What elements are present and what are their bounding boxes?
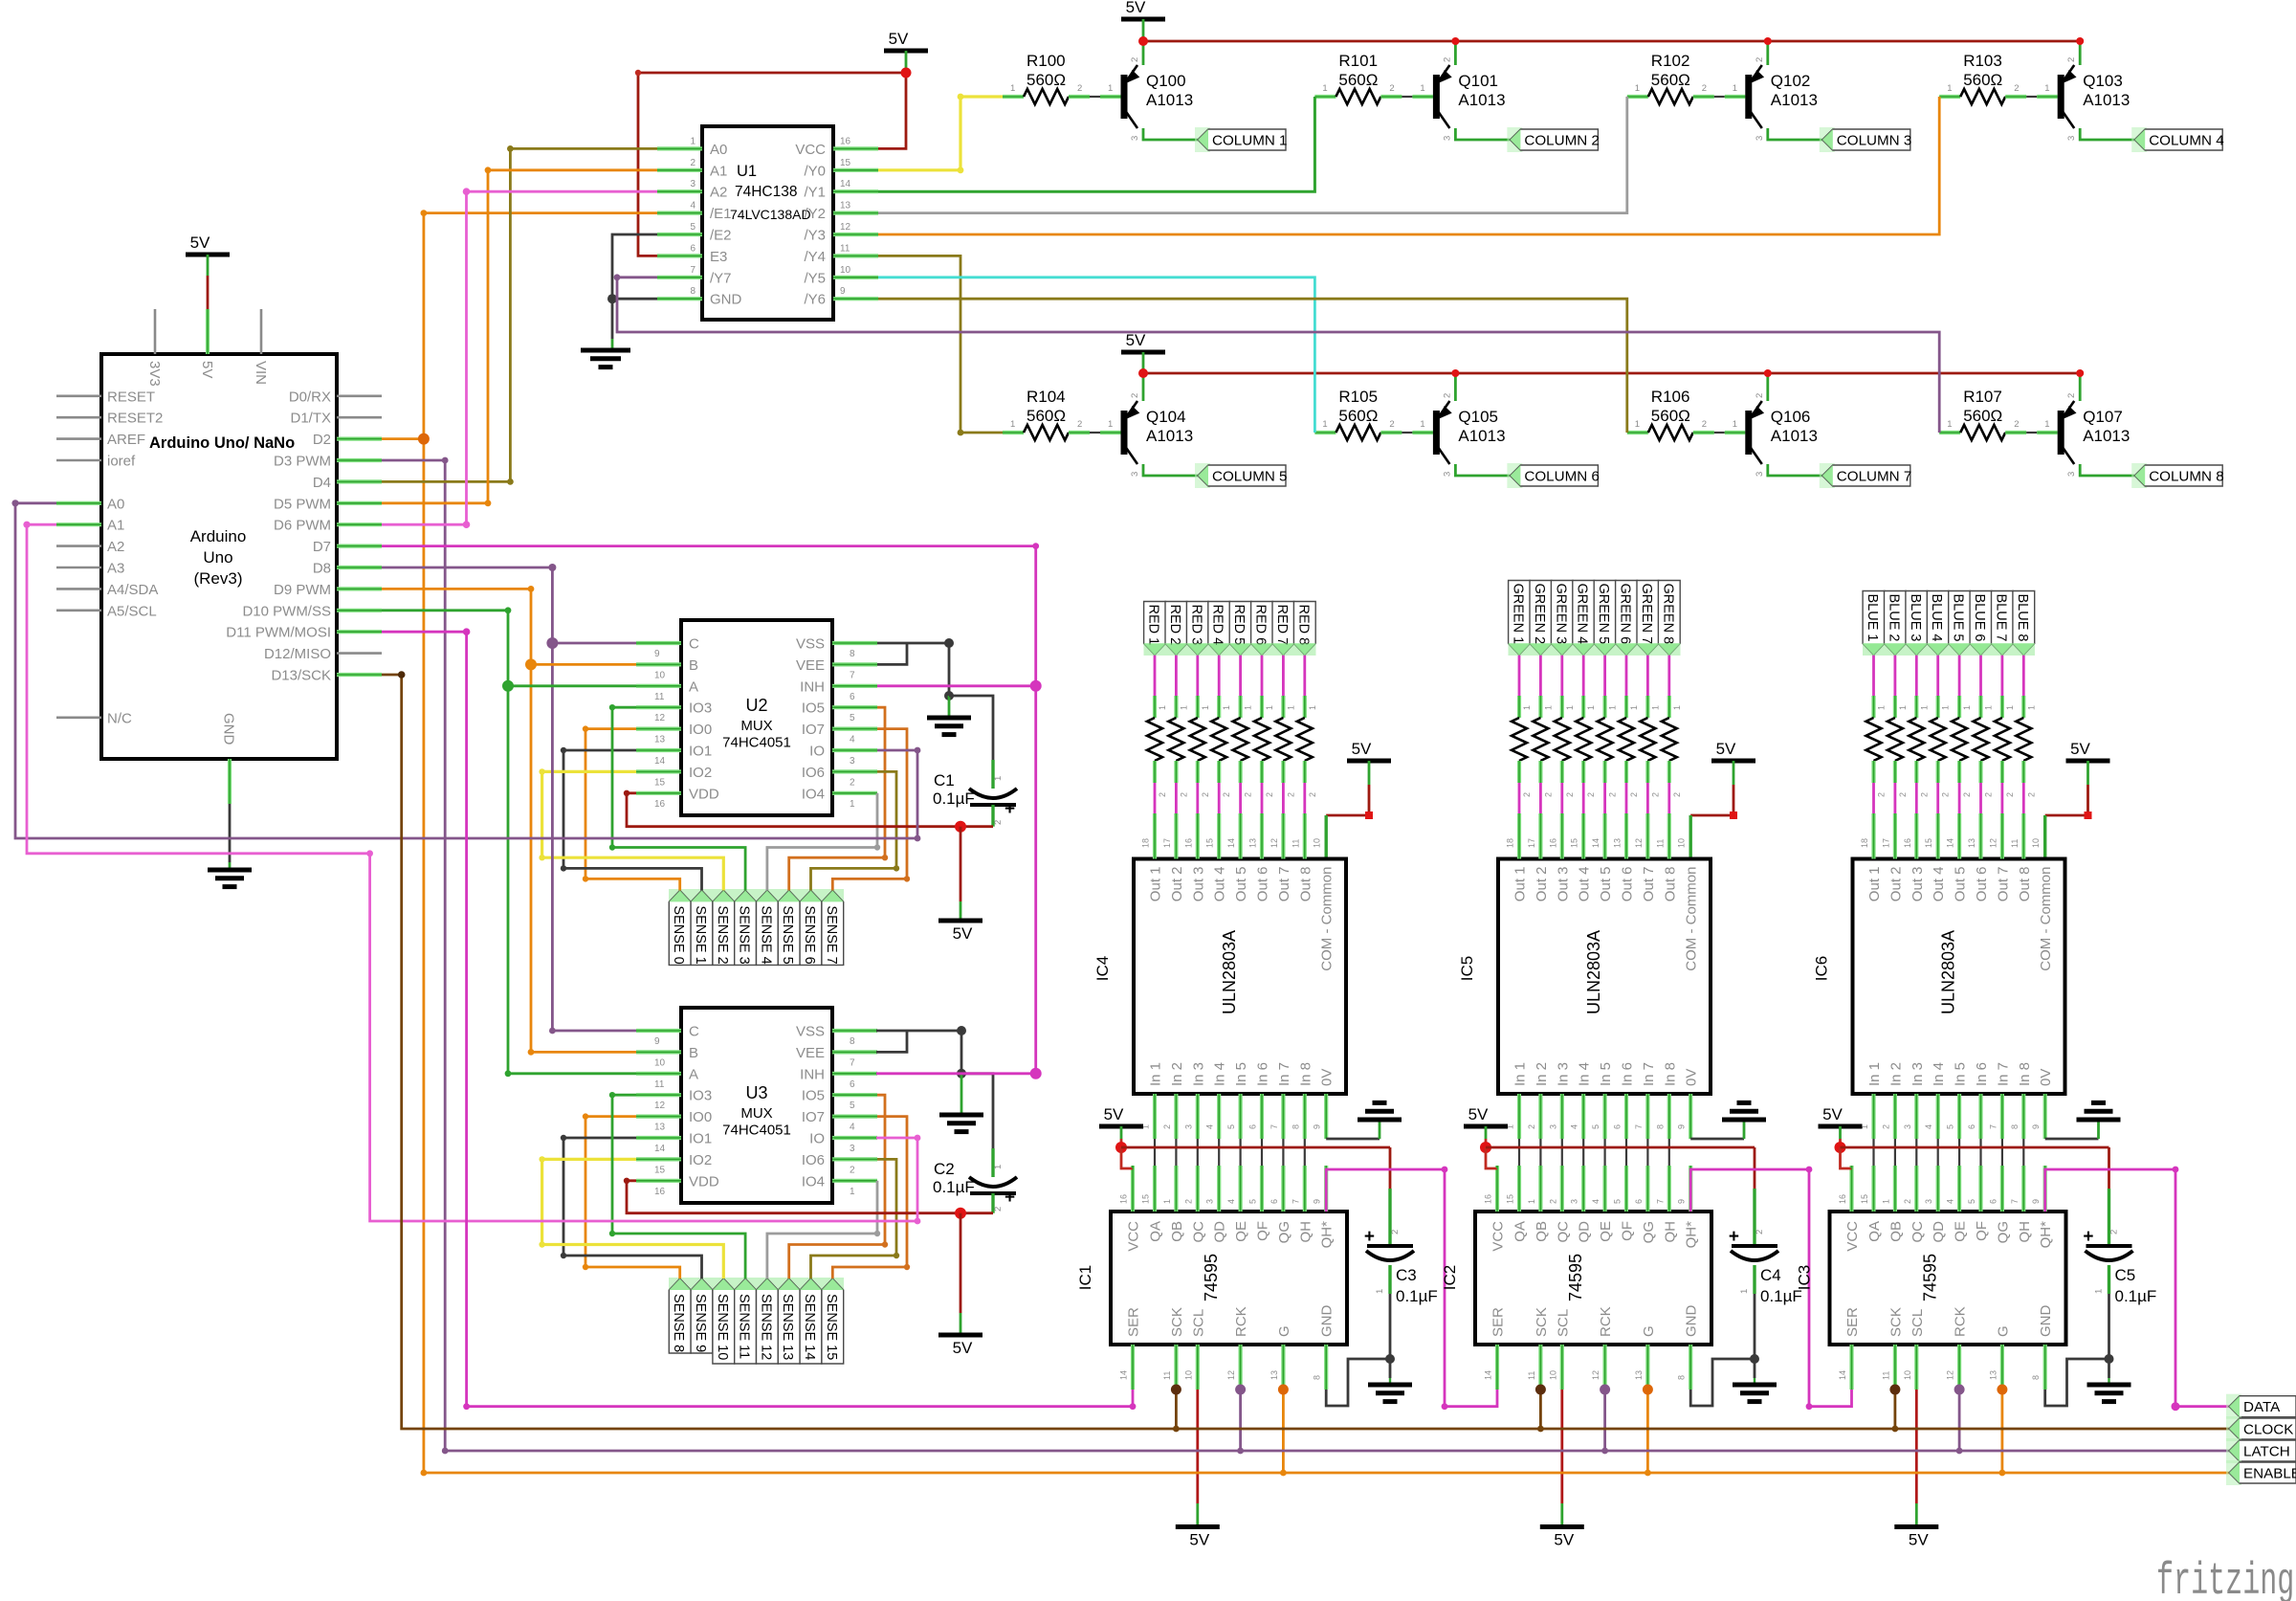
svg-text:A0: A0 [710, 142, 727, 158]
svg-text:In 6: In 6 [1974, 1062, 1990, 1086]
svg-text:VCC: VCC [1126, 1221, 1142, 1252]
svg-text:GND: GND [1684, 1305, 1700, 1338]
svg-text:7: 7 [690, 265, 695, 276]
net flag SENSE 9 [691, 1279, 713, 1353]
IC5 pin 5 In 5 [1602, 1094, 1606, 1139]
svg-text:/E2: /E2 [710, 228, 732, 244]
svg-text:CLOCK: CLOCK [2243, 1422, 2293, 1438]
IC6 pin 17 Out 2 [1893, 813, 1897, 859]
svg-text:RCK: RCK [1598, 1306, 1614, 1337]
svg-text:1: 1 [1672, 705, 1682, 710]
IC5 pin 11 Out 8 [1667, 813, 1671, 859]
svg-text:11: 11 [1291, 839, 1300, 848]
capacitor C5 0.1uF [2108, 1189, 2110, 1246]
svg-text:7: 7 [1988, 1124, 1998, 1129]
svg-text:GND: GND [221, 713, 237, 745]
svg-text:A5/SCL: A5/SCL [107, 603, 157, 619]
IC2 pin 7 QH [1667, 1166, 1671, 1212]
svg-text:C2: C2 [934, 1160, 955, 1178]
svg-text:IO7: IO7 [802, 1109, 825, 1125]
svg-text:QC: QC [1190, 1221, 1206, 1243]
svg-text:Arduino Uno/ NaNo: Arduino Uno/ NaNo [149, 434, 295, 452]
transistor Q103 A1013 PNP [2058, 75, 2064, 119]
wire /Y5 cyan to R105 [878, 278, 1314, 433]
wire IC5 0V to ground [1690, 1138, 1744, 1141]
net flag COLUMN 4 [2131, 127, 2147, 152]
IC4 pin 11 Out 8 [1303, 813, 1307, 859]
highlight band BLUE flags [1863, 643, 2035, 656]
svg-text:6: 6 [1613, 1124, 1623, 1129]
svg-text:2: 2 [2014, 419, 2019, 430]
IC4 pin 8 In 8 [1303, 1094, 1307, 1139]
svg-text:Out 3: Out 3 [1910, 867, 1926, 902]
net flag COLUMN 3 [1820, 127, 1835, 152]
wire flag to resistor col 2 [1539, 656, 1542, 697]
IC4 pin 3 In 3 [1196, 1094, 1200, 1139]
IC1 pin 14 SER [1131, 1345, 1135, 1390]
svg-text:14: 14 [654, 1144, 666, 1154]
svg-text:COLUMN 7: COLUMN 7 [1837, 469, 1911, 485]
svg-text:In 8: In 8 [2017, 1062, 2033, 1086]
IC5 pin 18 Out 1 [1517, 813, 1521, 859]
IC5 pin 17 Out 2 [1538, 813, 1542, 859]
svg-text:+: + [1004, 799, 1015, 819]
wire IO6 dark-yellow to SENSE [811, 1159, 897, 1279]
wire U2 VSS/VEE to ground [877, 643, 949, 696]
svg-text:560Ω: 560Ω [1651, 407, 1690, 425]
IC1 pin 15 QA [1153, 1166, 1157, 1212]
wire /Y4 dark-yellow to R104 [878, 256, 1003, 433]
U1 pin 3 A2 [657, 189, 702, 193]
svg-text:D9 PWM: D9 PWM [274, 582, 331, 598]
svg-text:QF: QF [1255, 1221, 1271, 1241]
svg-text:BLUE 3: BLUE 3 [1908, 594, 1923, 642]
U2 pin 12 IO3 [636, 705, 681, 709]
svg-text:In 1: In 1 [1866, 1062, 1883, 1086]
wire /Y7 purple to R107 [617, 278, 1939, 433]
IC1 pin 3 QD [1217, 1166, 1221, 1212]
wire IC3 GND to ground [2045, 1359, 2109, 1406]
svg-text:10: 10 [1313, 838, 1322, 848]
svg-text:Out 7: Out 7 [1995, 867, 2011, 902]
svg-text:BLUE 2: BLUE 2 [1886, 594, 1901, 642]
svg-text:1: 1 [1108, 83, 1113, 94]
IC5 pin 3 In 3 [1560, 1094, 1564, 1139]
IC5 pin 7 In 7 [1645, 1094, 1649, 1139]
svg-text:12: 12 [654, 1101, 666, 1111]
svg-text:2: 2 [1308, 792, 1317, 797]
IC6 pin 16 Out 3 [1914, 813, 1918, 859]
svg-text:Out 5: Out 5 [1233, 867, 1249, 902]
IC1 pin 5 QF [1260, 1166, 1264, 1212]
arduino pin VIN [260, 309, 263, 354]
arduino pin A1 [56, 523, 101, 526]
wire R101 to Q101 base [1402, 96, 1412, 98]
resistor network R7 vertical [1297, 718, 1313, 761]
svg-text:1: 1 [1162, 1199, 1172, 1204]
svg-text:RCK: RCK [1233, 1306, 1249, 1337]
arduino pin D6 PWM [337, 523, 382, 526]
svg-text:RED 1: RED 1 [1146, 605, 1161, 646]
svg-text:2: 2 [1077, 419, 1082, 430]
IC3 pin 8 GND [2043, 1345, 2047, 1390]
svg-text:560Ω: 560Ω [1651, 71, 1690, 89]
wire IO0 orange to SENSE [585, 1117, 680, 1279]
svg-text:VIN: VIN [253, 361, 269, 385]
svg-text:SENSE 13: SENSE 13 [780, 1294, 795, 1360]
svg-text:In 1: In 1 [1148, 1062, 1164, 1086]
svg-text:D7: D7 [313, 539, 331, 555]
wire flag to resistor col 1 [1154, 656, 1157, 697]
wire IC2 G to ENABLE bus [1646, 1390, 1649, 1473]
net flag SENSE 11 [735, 1279, 757, 1364]
svg-text:74HC4051: 74HC4051 [722, 1122, 791, 1138]
svg-text:4: 4 [1946, 1199, 1955, 1204]
svg-text:11: 11 [2010, 839, 2020, 848]
svg-text:9: 9 [654, 1036, 660, 1047]
svg-text:D10 PWM/SS: D10 PWM/SS [242, 603, 331, 619]
svg-text:1: 1 [1881, 1199, 1890, 1204]
svg-text:Out 3: Out 3 [1190, 867, 1206, 902]
svg-text:560Ω: 560Ω [1027, 407, 1066, 425]
IC4 pin 15 Out 4 [1217, 813, 1221, 859]
wire resistor to ULN2803 In pin [1625, 783, 1628, 814]
IC5 pin 12 Out 7 [1645, 813, 1649, 859]
wire Q105 collector to COLUMN flag [1455, 464, 1510, 476]
svg-text:A1013: A1013 [1146, 91, 1193, 109]
resistor network R15 vertical [1662, 718, 1677, 761]
svg-text:Q101: Q101 [1458, 72, 1498, 90]
svg-text:3: 3 [1183, 1124, 1193, 1129]
net flag BLUE 3 [1906, 591, 1928, 656]
wire resistor to ULN2803 In pin [2000, 783, 2003, 814]
svg-text:DATA: DATA [2243, 1399, 2281, 1415]
ground symbol at C3 [1368, 1383, 1412, 1388]
svg-text:QE: QE [1598, 1221, 1614, 1242]
svg-text:2: 2 [2005, 792, 2015, 797]
svg-text:Out 6: Out 6 [1974, 867, 1990, 902]
svg-text:A1013: A1013 [1146, 427, 1193, 445]
svg-text:BLUE 5: BLUE 5 [1951, 594, 1966, 642]
svg-text:IC1: IC1 [1076, 1265, 1094, 1290]
ground symbol at IC4 (flipped) [1358, 1118, 1402, 1123]
IC3 pin 5 QF [1978, 1166, 1982, 1212]
svg-text:5: 5 [1613, 1199, 1623, 1204]
driver IC5 ULN2803A [1498, 859, 1711, 1095]
svg-text:E3: E3 [710, 249, 727, 265]
U1 pin 15 /Y0 [833, 168, 878, 172]
svg-text:8: 8 [850, 1036, 855, 1047]
IC2 pin 16 VCC [1495, 1166, 1499, 1212]
resistor network R4 vertical [1233, 718, 1248, 761]
wire IC1 QH* to IC2 SER [1326, 1169, 1497, 1407]
svg-text:2: 2 [1881, 1124, 1890, 1129]
U1 pin 1 A0 [657, 146, 702, 150]
svg-text:2: 2 [1755, 393, 1765, 398]
net flag RED 3 [1186, 602, 1208, 656]
svg-text:A1: A1 [710, 163, 727, 179]
net flag SENSE 8 [669, 1279, 691, 1353]
IC1 pin 9 QH* [1324, 1166, 1328, 1212]
svg-text:2: 2 [1522, 792, 1532, 797]
U3 pin 1 IO4 [832, 1179, 877, 1183]
net flag RED 2 [1165, 602, 1187, 656]
svg-text:QA: QA [1866, 1221, 1883, 1242]
svg-text:5V: 5V [190, 233, 210, 252]
svg-text:5: 5 [690, 222, 695, 233]
wire resistor to ULN2803 In pin [1196, 783, 1199, 814]
svg-text:SENSE 7: SENSE 7 [824, 905, 839, 964]
wire U1 /E2-GND black net [612, 234, 657, 299]
svg-text:17: 17 [1881, 838, 1890, 848]
net flag GREEN 1 [1509, 581, 1531, 656]
IC2 pin 6 QG [1645, 1166, 1649, 1212]
svg-text:2: 2 [993, 820, 1004, 825]
svg-text:17: 17 [1527, 838, 1536, 848]
wire resistor to ULN2803 In pin [1518, 783, 1521, 814]
U2 pin 14 IO1 [636, 748, 681, 752]
svg-text:RED 5: RED 5 [1231, 605, 1247, 646]
wire flag to resistor col 2 [1175, 656, 1178, 697]
svg-text:U3: U3 [745, 1083, 767, 1102]
svg-text:6: 6 [1967, 1124, 1976, 1129]
wire resistor to ULN2803 In pin [1894, 783, 1897, 814]
svg-text:1: 1 [2094, 1289, 2105, 1294]
U1 pin 10 /Y5 [833, 276, 878, 279]
svg-text:5V: 5V [1189, 1531, 1209, 1549]
net flag RED 8 [1293, 602, 1315, 656]
wire D9 orange to U2/U3 B [382, 589, 636, 1052]
svg-text:Q106: Q106 [1771, 408, 1811, 426]
wire flag to resistor col 3 [1915, 656, 1918, 697]
svg-text:R101: R101 [1338, 52, 1378, 70]
svg-text:3: 3 [2066, 136, 2077, 141]
U3 pin 14 IO1 [636, 1136, 681, 1140]
net flag SENSE 7 [822, 890, 844, 965]
wire IC3 SCK to CLOCK bus [1894, 1390, 1897, 1429]
svg-text:2: 2 [1629, 792, 1639, 797]
resistor network R20 vertical [1952, 718, 1967, 761]
IC4 pin 17 Out 2 [1174, 813, 1178, 859]
svg-text:C1: C1 [934, 771, 955, 789]
net flag SENSE 3 [735, 890, 757, 965]
svg-text:QB: QB [1169, 1221, 1185, 1242]
arduino pin D9 PWM [337, 587, 382, 590]
svg-text:560Ω: 560Ω [1338, 71, 1378, 89]
svg-text:74595: 74595 [1202, 1254, 1221, 1301]
resistor R106 560ohm [1627, 431, 1648, 434]
wire D7 magenta to U2/U3 INH [382, 546, 1036, 1074]
svg-text:/Y6: /Y6 [804, 292, 826, 308]
svg-text:Out 1: Out 1 [1148, 867, 1164, 902]
wire IC2 RCK to LATCH bus [1603, 1390, 1606, 1451]
svg-text:SENSE 4: SENSE 4 [758, 905, 773, 964]
svg-text:Q105: Q105 [1458, 408, 1498, 426]
shift register IC1 74595 [1111, 1212, 1347, 1345]
net flag BLUE 8 [2013, 591, 2035, 656]
svg-text:1: 1 [1201, 705, 1210, 710]
wire flag to resistor col 8 [1667, 656, 1670, 697]
svg-text:COLUMN 6: COLUMN 6 [1524, 469, 1599, 485]
wire flag to resistor col 3 [1560, 656, 1563, 697]
wire IO5 orange to SENSE [789, 707, 885, 890]
net flag SENSE 6 [800, 890, 822, 965]
svg-text:RED 8: RED 8 [1295, 605, 1311, 646]
5V power symbol above Arduino [186, 253, 230, 257]
svg-text:16: 16 [1548, 838, 1557, 848]
svg-text:COLUMN 3: COLUMN 3 [1837, 133, 1911, 149]
svg-text:IO5: IO5 [802, 1088, 825, 1104]
svg-text:A: A [689, 1066, 698, 1082]
svg-text:G: G [1276, 1325, 1292, 1337]
resistor network R6 vertical [1275, 718, 1291, 761]
svg-text:9: 9 [1313, 1199, 1322, 1204]
IC2 pin 2 QC [1560, 1166, 1564, 1212]
svg-text:3: 3 [690, 179, 695, 189]
svg-text:11: 11 [1881, 1371, 1890, 1380]
svg-text:Out 4: Out 4 [1212, 867, 1228, 902]
svg-text:13: 13 [1269, 1370, 1279, 1380]
svg-text:8: 8 [690, 286, 695, 297]
svg-text:11: 11 [654, 1079, 665, 1090]
arduino pin 5V [206, 309, 210, 354]
svg-text:14: 14 [1591, 838, 1601, 848]
svg-text:560Ω: 560Ω [1963, 71, 2002, 89]
svg-text:1: 1 [1733, 419, 1737, 430]
svg-text:SER: SER [1126, 1307, 1142, 1337]
IC2 pin 5 QF [1624, 1166, 1628, 1212]
wire /Y2 gray to R102 [878, 97, 1627, 213]
svg-text:N/C: N/C [107, 710, 132, 726]
IC2 pin 11 SCK [1538, 1345, 1542, 1390]
svg-text:5V: 5V [199, 361, 215, 378]
svg-text:2: 2 [2026, 792, 2036, 797]
IC6 pin 15 Out 4 [1936, 813, 1940, 859]
IC6 pin 2 In 2 [1893, 1094, 1897, 1139]
svg-text:GREEN 2: GREEN 2 [1532, 584, 1547, 645]
svg-text:16: 16 [654, 799, 666, 810]
svg-text:D0/RX: D0/RX [289, 389, 331, 405]
wire 5V to IC1 VCC and In-row rail [1120, 1126, 1123, 1139]
svg-text:1: 1 [1522, 705, 1532, 710]
svg-text:4: 4 [690, 201, 695, 211]
svg-text:A2: A2 [107, 539, 124, 555]
IC3 pin 12 RCK [1957, 1345, 1961, 1390]
svg-text:AREF: AREF [107, 432, 145, 448]
svg-text:Out 6: Out 6 [1620, 867, 1636, 902]
capacitor C1 0.1uF [991, 760, 994, 789]
svg-text:2: 2 [1158, 792, 1167, 797]
wire resistor to ULN2803 In pin [1646, 783, 1649, 814]
svg-text:/Y3: /Y3 [804, 228, 826, 244]
net flag SENSE 14 [800, 1279, 822, 1364]
svg-text:2: 2 [1130, 393, 1140, 398]
capacitor C2 0.1uF [991, 1148, 994, 1177]
svg-text:QC: QC [1910, 1221, 1926, 1243]
svg-text:SCK: SCK [1534, 1307, 1550, 1337]
U2 pin 1 IO4 [832, 791, 877, 795]
transistor Q107 A1013 PNP [2058, 411, 2064, 455]
svg-text:2: 2 [1586, 792, 1596, 797]
svg-text:12: 12 [1269, 838, 1279, 848]
svg-text:GREEN 4: GREEN 4 [1575, 584, 1590, 645]
svg-text:QD: QD [1212, 1221, 1228, 1243]
svg-text:/Y1: /Y1 [804, 185, 826, 201]
IC1 pin 12 RCK [1238, 1345, 1242, 1390]
Arduino Uno/Nano module U-ARD [101, 354, 337, 759]
svg-text:5: 5 [850, 713, 855, 723]
svg-text:12: 12 [1634, 838, 1644, 848]
svg-text:Out 6: Out 6 [1255, 867, 1271, 902]
net flag LATCH [2226, 1438, 2241, 1463]
net flag CLOCK [2226, 1416, 2241, 1441]
svg-text:6: 6 [850, 1079, 855, 1090]
svg-text:SENSE 0: SENSE 0 [671, 905, 686, 964]
U2 pin 13 IO0 [636, 726, 681, 730]
svg-text:1: 1 [2005, 705, 2015, 710]
IC3 pin 2 QC [1914, 1166, 1918, 1212]
svg-text:9: 9 [1313, 1124, 1322, 1129]
svg-text:3: 3 [1130, 136, 1140, 141]
svg-text:In 7: In 7 [1641, 1062, 1657, 1086]
IC1 pin 6 QG [1281, 1166, 1285, 1212]
svg-text:2: 2 [1565, 792, 1575, 797]
svg-text:SCK: SCK [1888, 1307, 1904, 1337]
svg-text:SER: SER [1490, 1307, 1507, 1337]
svg-text:SCL: SCL [1555, 1309, 1571, 1337]
svg-text:VCC: VCC [1490, 1221, 1507, 1252]
svg-text:A2: A2 [710, 185, 727, 201]
svg-text:GREEN 1: GREEN 1 [1511, 584, 1526, 645]
wire 5V to IC4 COM-Common [1368, 761, 1371, 785]
U3 pin 9 C [636, 1029, 681, 1033]
svg-text:GREEN 6: GREEN 6 [1618, 584, 1633, 645]
wire IO4 gray to SENSE [767, 793, 877, 891]
wire Q101 collector to COLUMN flag [1455, 128, 1510, 140]
svg-text:3: 3 [1903, 1124, 1912, 1129]
wire resistor to ULN2803 In pin [1154, 783, 1157, 814]
mux U3 74HC4051 [681, 1008, 832, 1203]
svg-text:QC: QC [1555, 1221, 1571, 1243]
fritzing watermark [2156, 1556, 2294, 1601]
svg-text:2: 2 [1389, 83, 1394, 94]
svg-text:1: 1 [1650, 705, 1660, 710]
svg-text:5V: 5V [1909, 1531, 1929, 1549]
svg-text:SENSE 3: SENSE 3 [737, 905, 752, 964]
wire resistor to ULN2803 In pin [1979, 783, 1982, 814]
svg-text:Out 8: Out 8 [1662, 867, 1678, 902]
svg-text:QG: QG [1276, 1221, 1292, 1243]
U2 pin 7 VEE [832, 662, 877, 666]
net flag RED 7 [1272, 602, 1294, 656]
wire R102 to Q102 base [1714, 96, 1725, 98]
svg-text:Out 8: Out 8 [2017, 867, 2033, 902]
IC4 pin 13 Out 6 [1260, 813, 1264, 859]
svg-text:14: 14 [654, 756, 666, 767]
svg-text:2: 2 [1286, 792, 1295, 797]
svg-text:GND: GND [1319, 1305, 1336, 1338]
wire R107 to Q107 base [2026, 432, 2037, 434]
svg-text:4: 4 [1205, 1124, 1215, 1129]
svg-text:18: 18 [1141, 838, 1151, 848]
mux U2 74HC4051 [681, 620, 832, 815]
IC2 pin 4 QE [1602, 1166, 1606, 1212]
U3 pin 5 IO5 [832, 1093, 877, 1097]
wire D11 magenta to IC1 SER (DATA) [382, 632, 1133, 1406]
svg-text:/E1: /E1 [710, 206, 732, 222]
svg-text:IC3: IC3 [1796, 1265, 1814, 1290]
svg-text:In 8: In 8 [1297, 1062, 1314, 1086]
